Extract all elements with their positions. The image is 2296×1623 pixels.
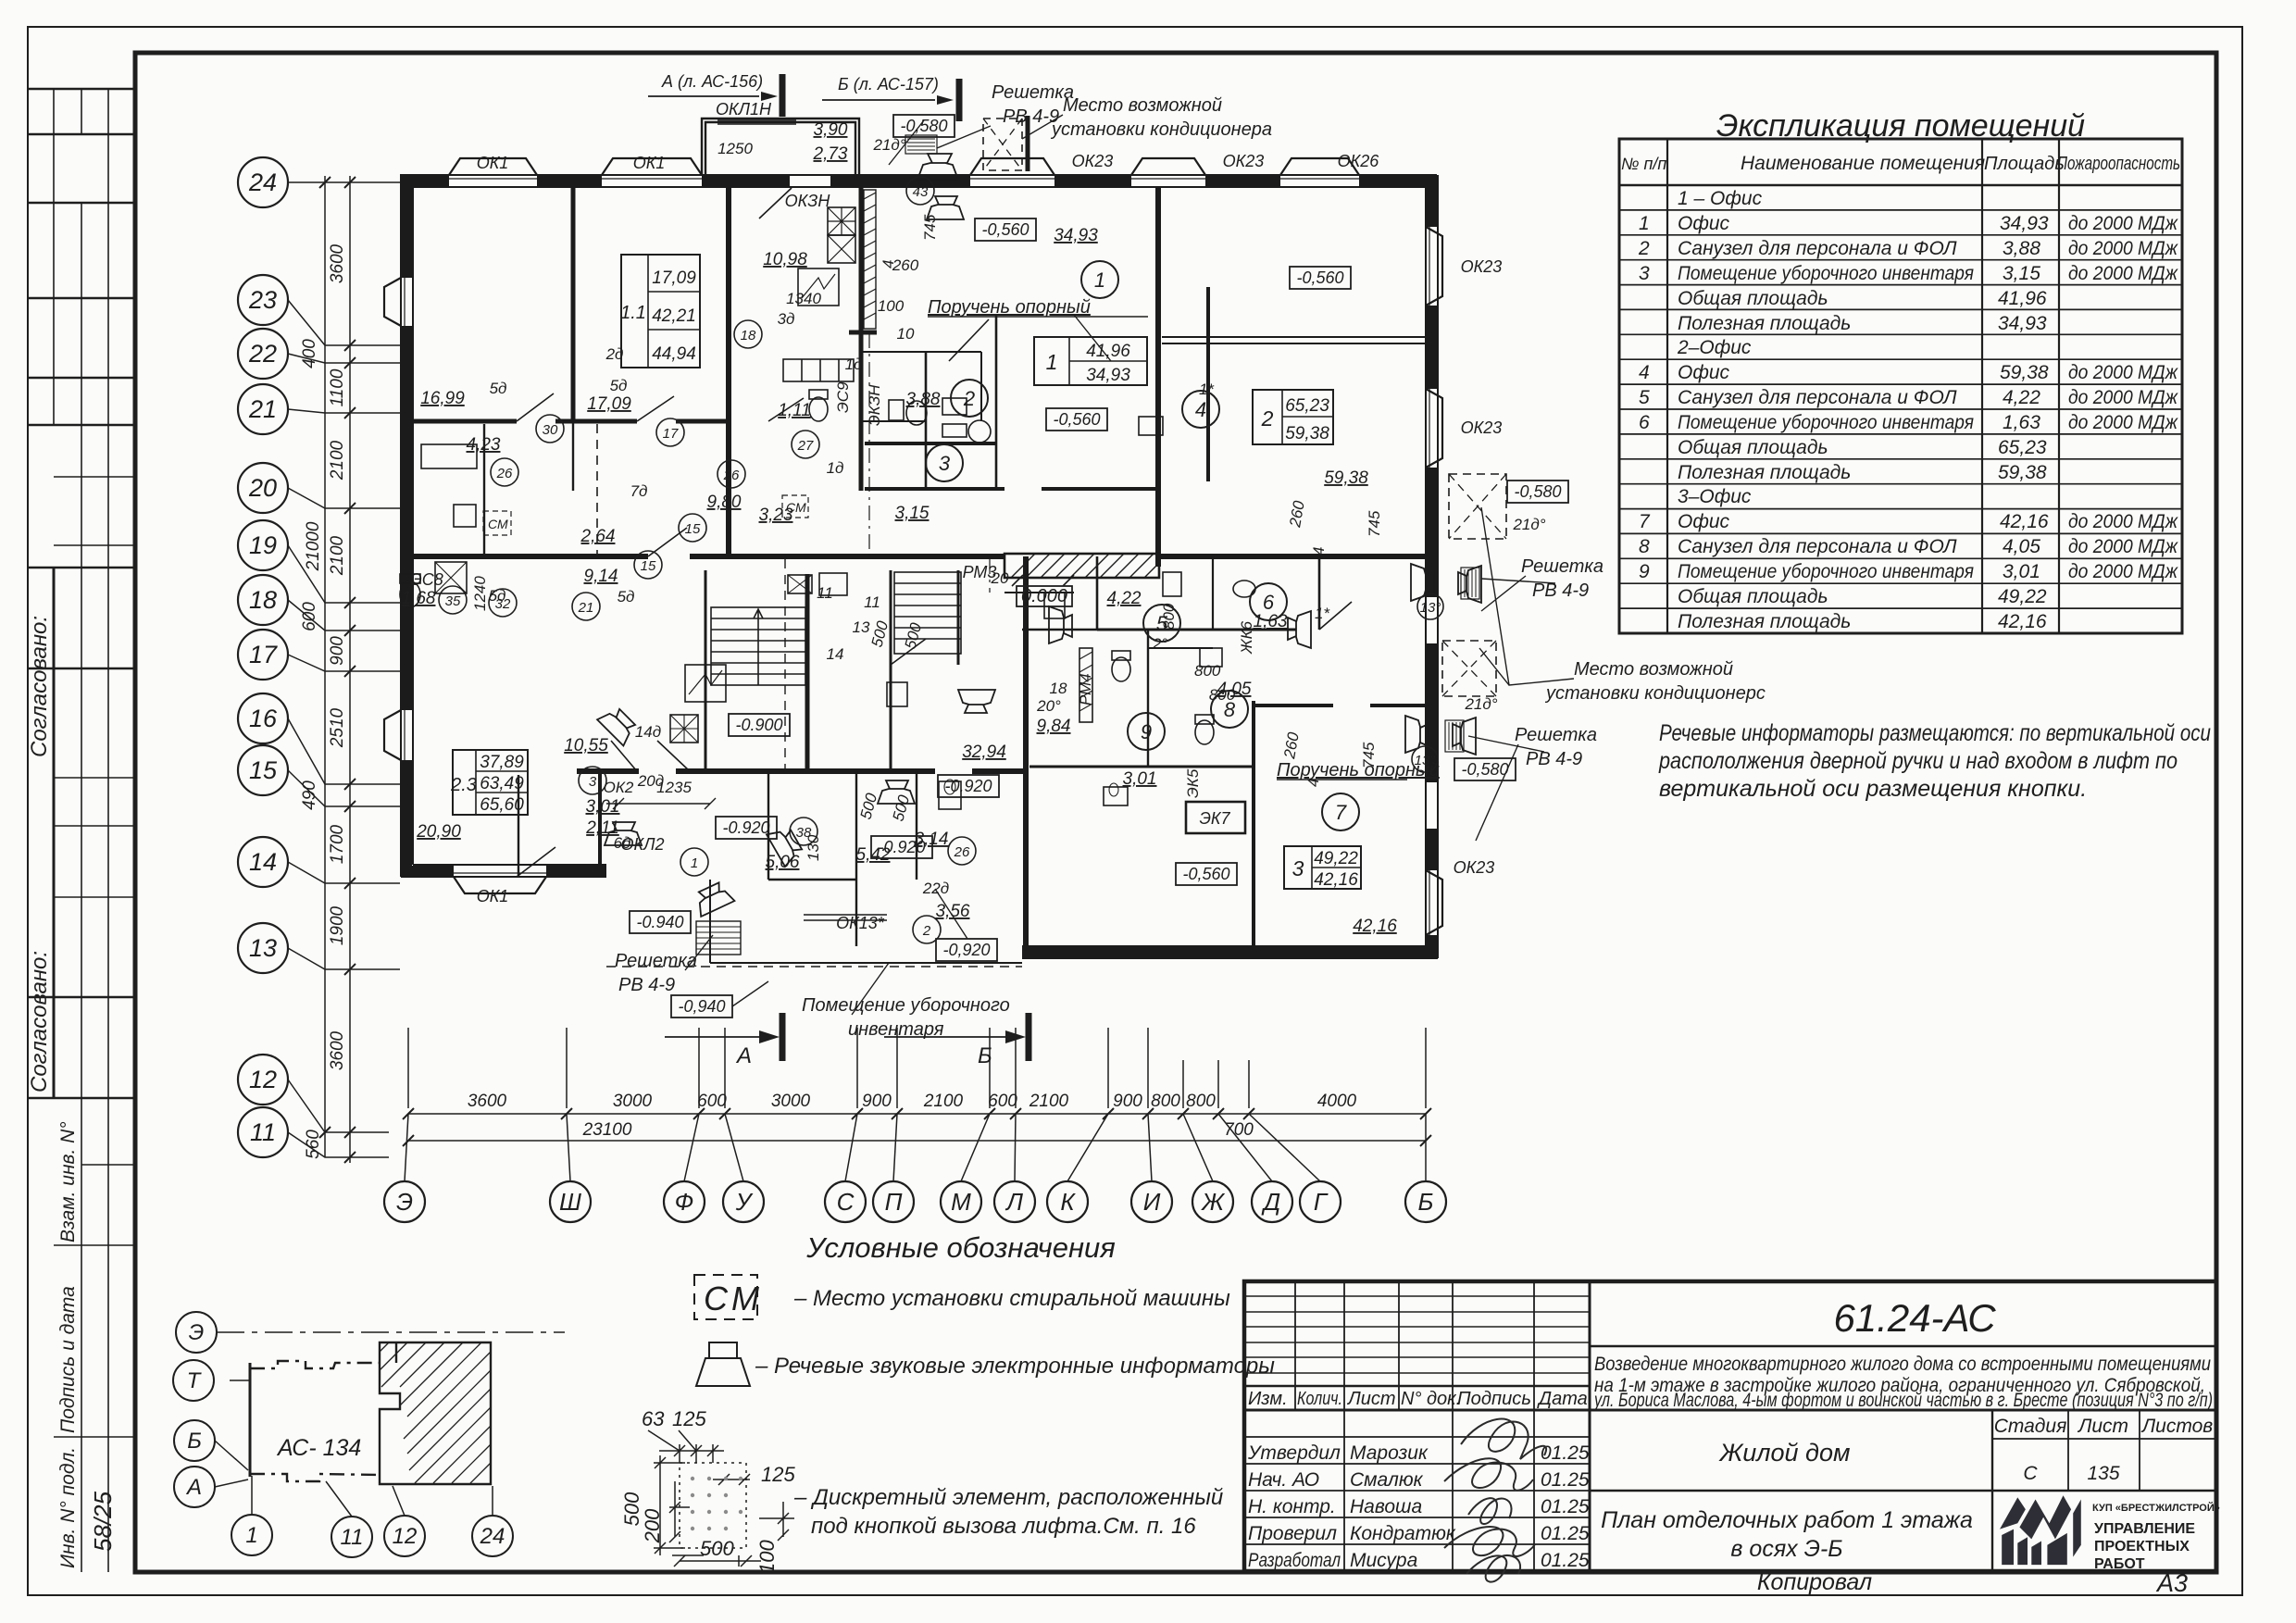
svg-text:ЭС8: ЭС8 [410, 570, 443, 589]
svg-text:11: 11 [341, 1525, 364, 1550]
svg-text:С: С [2023, 1463, 2038, 1484]
hatched mat on corridor [1004, 554, 1159, 578]
svg-text:Ж: Ж [1200, 1188, 1226, 1216]
svg-text:800: 800 [1160, 603, 1178, 630]
svg-text:ЭК5: ЭК5 [1184, 768, 1202, 798]
svg-text:вертикальной оси размещения кн: вертикальной оси размещения кнопки. [1659, 776, 2087, 802]
left dim labels rotated [300, 243, 347, 1158]
svg-text:900: 900 [1113, 1092, 1142, 1111]
bottom-left exterior wall [401, 865, 606, 877]
section mark A top [661, 72, 939, 94]
svg-text:500: 500 [857, 791, 881, 821]
svg-text:17: 17 [249, 641, 278, 668]
svg-text:-0,580: -0,580 [1514, 482, 1561, 501]
svg-text:01.25: 01.25 [1541, 1550, 1590, 1571]
svg-text:ОК23: ОК23 [1461, 418, 1503, 437]
axis circles [173, 1312, 513, 1557]
svg-text:49,22: 49,22 [1314, 849, 1358, 868]
CM washing machine symbol [694, 1275, 757, 1319]
svg-text:900: 900 [862, 1092, 892, 1111]
svg-text:Б: Б [187, 1429, 202, 1454]
rotated labels [27, 616, 117, 1568]
svg-text:2: 2 [1261, 406, 1274, 431]
svg-text:Смалюк: Смалюк [1350, 1469, 1424, 1491]
vent block crossed squares [828, 207, 855, 235]
text notes on plan [615, 82, 1766, 1040]
bottom axis circles [384, 1181, 1446, 1222]
svg-text:УПРАВЛЕНИЕ: УПРАВЛЕНИЕ [2094, 1521, 2195, 1537]
svg-text:1д: 1д [827, 459, 844, 477]
svg-text:Разработал: Разработал [1248, 1550, 1341, 1571]
porch outline bottom center [710, 880, 1022, 963]
svg-text:-0,580: -0,580 [900, 117, 947, 135]
svg-text:1д: 1д [845, 356, 863, 373]
svg-text:Копировал: Копировал [1757, 1569, 1872, 1595]
svg-text:ОКЛ2: ОКЛ2 [621, 835, 665, 854]
svg-text:125: 125 [672, 1407, 706, 1430]
svg-text:490: 490 [300, 780, 319, 810]
svg-text:Г: Г [1314, 1188, 1329, 1216]
svg-text:Общая площадь: Общая площадь [1678, 586, 1828, 607]
svg-text:800: 800 [1194, 662, 1221, 680]
svg-text:1: 1 [245, 1523, 257, 1548]
svg-text:Колич.: Колич. [1297, 1389, 1342, 1409]
svg-text:4,05: 4,05 [2003, 536, 2040, 557]
svg-text:5,42: 5,42 [856, 845, 891, 865]
stamp column verticals [54, 89, 108, 1572]
svg-text:до 2000 МДж: до 2000 МДж [2068, 213, 2178, 234]
svg-text:ПРОЕКТНЫХ: ПРОЕКТНЫХ [2094, 1539, 2190, 1554]
svg-text:установки кондиционера: установки кондиционера [1050, 119, 1272, 140]
svg-text:Лист: Лист [1346, 1389, 1396, 1409]
svg-text:42,21: 42,21 [652, 306, 696, 326]
svg-text:59,38: 59,38 [2000, 362, 2049, 383]
svg-text:-0,560: -0,560 [1296, 268, 1343, 287]
room 7 walls [1252, 701, 1255, 946]
svg-text:13: 13 [249, 934, 277, 962]
svg-text:900: 900 [328, 636, 347, 666]
svg-text:Место возможной: Место возможной [1063, 95, 1222, 116]
svg-text:Э: Э [189, 1320, 205, 1345]
section mark A bottom [735, 1043, 992, 1068]
svg-text:27: 27 [797, 438, 814, 454]
left vertical dim chain lines [325, 176, 350, 1163]
svg-text:01.25: 01.25 [1541, 1469, 1590, 1491]
svg-text:Помещение уборочного: Помещение уборочного [802, 995, 1010, 1016]
svg-text:2–Офис: 2–Офис [1677, 337, 1752, 358]
svg-text:Подпись: Подпись [1457, 1389, 1531, 1409]
svg-text:8: 8 [1639, 536, 1650, 557]
svg-text:3д: 3д [778, 310, 795, 328]
svg-text:1900: 1900 [328, 905, 347, 945]
svg-text:34,93: 34,93 [1998, 313, 2047, 334]
svg-text:4000: 4000 [1317, 1092, 1357, 1111]
svg-text:ОКЛ1Н: ОКЛ1Н [716, 100, 772, 119]
svg-text:20,90: 20,90 [416, 822, 461, 842]
svg-text:4: 4 [1310, 547, 1328, 556]
svg-text:17,09: 17,09 [587, 394, 631, 414]
wall H y455 left rooms [400, 419, 731, 424]
svg-text:-0,920: -0,920 [942, 941, 990, 959]
svg-text:600: 600 [300, 602, 319, 631]
svg-text:500: 500 [868, 618, 892, 649]
svg-text:Ш: Ш [559, 1188, 581, 1216]
svg-text:Площадь: Площадь [1984, 154, 2065, 174]
svg-text:до 2000 МДж: до 2000 МДж [2068, 238, 2178, 259]
svg-text:Т: Т [187, 1368, 203, 1393]
svg-text:2: 2 [922, 923, 931, 939]
svg-text:18: 18 [741, 328, 756, 343]
svg-text:установки кондиционерс: установки кондиционерс [1544, 683, 1766, 704]
svg-text:до 2000 МДж: до 2000 МДж [2068, 536, 2178, 557]
left tick marks [319, 177, 356, 1163]
svg-text:260: 260 [1280, 730, 1303, 761]
svg-text:4,23: 4,23 [467, 435, 501, 455]
svg-text:Место возможной: Место возможной [1574, 659, 1733, 680]
partition H y368 office 2 [1162, 337, 1426, 343]
small fixtures: toilets and sinks [400, 268, 1255, 809]
svg-text:500: 500 [890, 793, 914, 823]
bottom horizontal dim chain [408, 1114, 1426, 1141]
svg-text:ОК1: ОК1 [477, 887, 509, 905]
svg-text:59,38: 59,38 [1324, 468, 1368, 488]
dashed AC box top [983, 119, 1022, 170]
svg-text:3,01: 3,01 [586, 797, 620, 817]
svg-text:Утвердил: Утвердил [1247, 1442, 1341, 1464]
svg-text:№ п/п: № п/п [1621, 155, 1666, 173]
svg-text:9,80: 9,80 [707, 493, 742, 512]
svg-text:А3: А3 [2155, 1569, 2188, 1597]
svg-text:ЖК6: ЖК6 [1238, 620, 1255, 655]
svg-text:ОК23: ОК23 [1223, 152, 1265, 170]
svg-text:Навоша: Навоша [1350, 1496, 1422, 1517]
wall V x930 kitchen shaft [859, 187, 864, 491]
entry canopy line at 0.000 [1004, 592, 1074, 593]
svg-text:21000: 21000 [304, 521, 323, 571]
svg-text:инвентаря: инвентаря [848, 1019, 944, 1040]
svg-text:18: 18 [1050, 680, 1067, 697]
svg-text:7д: 7д [630, 482, 648, 500]
building outline [215, 1332, 565, 1517]
svg-text:34,93: 34,93 [1086, 366, 1130, 385]
svg-text:6: 6 [1263, 591, 1275, 614]
room number circles [926, 261, 1359, 830]
svg-text:до 2000 МДж: до 2000 МДж [2068, 362, 2178, 383]
svg-text:А: А [185, 1475, 202, 1500]
svg-text:1,68: 1,68 [402, 589, 436, 608]
svg-text:100: 100 [755, 1540, 779, 1574]
svg-text:1*: 1* [1199, 381, 1215, 398]
window labels [410, 100, 1502, 932]
svg-text:30: 30 [543, 422, 558, 438]
svg-text:Ф: Ф [675, 1188, 694, 1216]
svg-text:РВ 4-9: РВ 4-9 [618, 975, 675, 995]
svg-text:Пожароопасность: Пожароопасность [2057, 154, 2180, 174]
svg-text:61.24-АС: 61.24-АС [1833, 1296, 1996, 1340]
svg-text:23100: 23100 [582, 1120, 632, 1140]
svg-text:3600: 3600 [468, 1092, 507, 1111]
svg-text:9: 9 [1141, 720, 1152, 743]
svg-text:41,96: 41,96 [1086, 342, 1130, 361]
svg-text:16: 16 [249, 705, 278, 732]
hatched shaft strip [864, 190, 876, 329]
svg-text:АС- 134: АС- 134 [276, 1435, 361, 1461]
svg-text:15: 15 [641, 558, 656, 574]
svg-text:2.3: 2.3 [450, 775, 477, 795]
svg-text:3: 3 [939, 452, 951, 475]
svg-text:РАБОТ: РАБОТ [2094, 1556, 2145, 1572]
svg-text:63,49: 63,49 [480, 774, 524, 793]
svg-text:Условные обозначения: Условные обозначения [805, 1231, 1116, 1264]
svg-text:1,63: 1,63 [1254, 612, 1288, 631]
svg-text:5,06: 5,06 [766, 853, 800, 872]
svg-text:3,01: 3,01 [2003, 561, 2040, 582]
svg-text:16,99: 16,99 [420, 389, 465, 408]
svg-text:до 2000 МДж: до 2000 МДж [2068, 387, 2178, 408]
EK7 box [1186, 802, 1245, 833]
svg-text:1.1: 1.1 [620, 303, 646, 323]
svg-text:1340: 1340 [786, 290, 821, 307]
svg-text:Согласовано:: Согласовано: [27, 616, 52, 757]
svg-text:26: 26 [954, 844, 970, 860]
svg-text:2510: 2510 [328, 707, 347, 748]
svg-text:Б: Б [1418, 1188, 1434, 1216]
svg-text:-0,560: -0,560 [1053, 410, 1100, 429]
svg-text:ОК23: ОК23 [1454, 858, 1495, 877]
svg-text:41,96: 41,96 [1998, 288, 2047, 309]
svg-text:Поручень опорный: Поручень опорный [1277, 760, 1440, 780]
svg-text:600: 600 [697, 1092, 727, 1111]
svg-text:800: 800 [1209, 686, 1236, 704]
svg-text:11: 11 [864, 593, 880, 611]
svg-text:7: 7 [1639, 511, 1651, 532]
svg-text:ОК1: ОК1 [633, 154, 666, 172]
svg-text:РВ 4-9: РВ 4-9 [1003, 106, 1059, 127]
svg-text:под кнопкой вызова лифта.См. п: под кнопкой вызова лифта.См. п. 16 [811, 1514, 1196, 1539]
svg-text:Помещение уборочного инвентаря: Помещение уборочного инвентаря [1678, 263, 1974, 284]
svg-text:3000: 3000 [613, 1092, 653, 1111]
dim line OK2 1235 [606, 798, 716, 809]
stamp partial rows [54, 477, 135, 1437]
svg-text:РВ 4-9: РВ 4-9 [1532, 581, 1589, 601]
svg-text:ОК26: ОК26 [1338, 152, 1380, 170]
svg-text:1 – Офис: 1 – Офис [1678, 188, 1763, 209]
svg-text:745: 745 [921, 214, 939, 241]
top entrance bump ОКЛ1Н [702, 119, 859, 179]
svg-text:-0,560: -0,560 [981, 220, 1029, 239]
svg-text:Инв. N° подл.: Инв. N° подл. [57, 1447, 79, 1568]
svg-text:А: А [735, 1043, 752, 1068]
svg-text:ОК1: ОК1 [477, 154, 509, 172]
dashed partition line left [596, 424, 598, 554]
left axis circles [238, 157, 288, 1157]
svg-text:Общая площадь: Общая площадь [1678, 437, 1828, 458]
svg-text:Поручень опорный: Поручень опорный [928, 297, 1091, 318]
svg-text:19: 19 [249, 531, 277, 559]
top wall piers [400, 175, 1437, 187]
svg-text:22: 22 [248, 340, 277, 368]
svg-text:12: 12 [249, 1066, 277, 1093]
svg-text:42,16: 42,16 [1998, 611, 2047, 632]
top exterior wall faces [400, 175, 1437, 187]
svg-text:Д: Д [1261, 1188, 1280, 1216]
wall V x619 [571, 187, 576, 421]
svg-text:ул. Бориса Маслова, 4-ым форто: ул. Бориса Маслова, 4-ым фортом и воинск… [1592, 1390, 2213, 1411]
svg-text:58/25: 58/25 [89, 1491, 117, 1552]
svg-text:П: П [885, 1188, 903, 1216]
svg-text:2°: 2° [1152, 635, 1167, 653]
stairwell walls [705, 570, 707, 771]
svg-text:2100: 2100 [923, 1092, 964, 1111]
svg-text:7: 7 [1335, 801, 1347, 824]
svg-text:СМ: СМ [488, 517, 508, 531]
svg-text:9: 9 [1639, 561, 1650, 582]
wall V x787 [726, 187, 731, 558]
svg-text:10: 10 [897, 325, 915, 343]
svg-text:Взам. инв. N°: Взам. инв. N° [57, 1121, 79, 1242]
svg-text:3,88: 3,88 [2003, 238, 2040, 259]
discrete element diagram [648, 1430, 794, 1567]
svg-text:5д: 5д [490, 380, 507, 397]
bottom-center room partitions [768, 771, 856, 946]
svg-text:-0,940: -0,940 [678, 997, 725, 1016]
svg-text:Офис: Офис [1678, 362, 1730, 383]
svg-text:5д: 5д [610, 377, 628, 394]
leader lines [685, 115, 1574, 1015]
svg-text:-0.920: -0.920 [944, 777, 992, 795]
elevation boxes [630, 115, 1568, 1017]
svg-text:План отделочных работ 1 этажа: План отделочных работ 1 этажа [1601, 1507, 1973, 1533]
right mid rooms 5 6 8 9 [1096, 556, 1099, 630]
svg-text:01.25: 01.25 [1541, 1442, 1590, 1464]
svg-text:24: 24 [248, 169, 277, 196]
svg-text:1250: 1250 [717, 140, 753, 157]
svg-text:260: 260 [1286, 499, 1308, 530]
svg-text:34,93: 34,93 [2000, 213, 2049, 234]
wall V x655 step [598, 771, 602, 877]
svg-text:ОК2: ОК2 [604, 779, 634, 796]
svg-text:26: 26 [496, 466, 513, 481]
svg-text:11: 11 [250, 1118, 276, 1146]
svg-text:745: 745 [1366, 510, 1383, 537]
svg-text:Речевые информаторы размещаютс: Речевые информаторы размещаются: по верт… [1659, 720, 2211, 746]
svg-text:4: 4 [1639, 362, 1650, 383]
svg-text:63: 63 [642, 1407, 665, 1430]
svg-text:21: 21 [248, 395, 277, 423]
svg-text:11: 11 [817, 584, 833, 602]
speaker symbols [597, 154, 1481, 917]
svg-text:ОКЗН: ОКЗН [785, 192, 831, 210]
bottom dim labels [468, 1092, 1357, 1140]
svg-text:2: 2 [1638, 238, 1650, 259]
svg-text:Решетка: Решетка [1521, 556, 1603, 577]
door leaves misc [517, 398, 1352, 877]
svg-text:Изм.: Изм. [1248, 1389, 1288, 1409]
svg-text:до 2000 МДж: до 2000 МДж [2068, 412, 2178, 433]
svg-text:КУП «БРЕСТЖИЛСТРОЙ»: КУП «БРЕСТЖИЛСТРОЙ» [2092, 1502, 2220, 1514]
svg-text:Проверил: Проверил [1248, 1523, 1337, 1544]
right exterior wall [1426, 175, 1438, 958]
grille hatch right 1 [1461, 568, 1479, 599]
svg-text:С: С [837, 1188, 855, 1216]
svg-text:3,23: 3,23 [759, 506, 793, 525]
svg-text:59,38: 59,38 [1998, 462, 2047, 483]
svg-text:Б (л. АС-157): Б (л. АС-157) [838, 75, 939, 94]
svg-text:ЭС9: ЭС9 [834, 381, 852, 413]
svg-text:С: С [704, 1280, 729, 1317]
svg-text:Л: Л [1004, 1188, 1023, 1216]
svg-text:Листов: Листов [2140, 1416, 2214, 1437]
svg-text:Санузел для персонала и ФОЛ: Санузел для персонала и ФОЛ [1678, 536, 1957, 557]
svg-text:3,01: 3,01 [1123, 769, 1157, 789]
svg-text:5д: 5д [489, 587, 506, 605]
svg-text:Н. контр.: Н. контр. [1248, 1496, 1336, 1517]
svg-text:3000: 3000 [771, 1092, 811, 1111]
svg-text:22д: 22д [922, 880, 949, 897]
svg-text:200: 200 [641, 1508, 664, 1543]
bottom ticks [403, 1108, 1431, 1146]
PM4 duct [1079, 648, 1092, 722]
signatures [1444, 1419, 1546, 1582]
svg-text:20д: 20д [637, 772, 664, 790]
svg-text:ЭК7: ЭК7 [1199, 809, 1230, 828]
svg-text:Полезная площадь: Полезная площадь [1678, 611, 1851, 632]
svg-text:700: 700 [1224, 1120, 1254, 1140]
svg-text:распололжения дверной ручки и: распололжения дверной ручки и над входом… [1658, 748, 2177, 774]
svg-text:10,98: 10,98 [763, 250, 807, 269]
svg-text:560: 560 [304, 1130, 323, 1159]
wall V x1251 [1155, 187, 1161, 567]
svg-text:59,38: 59,38 [1285, 424, 1329, 443]
svg-text:Офис: Офис [1678, 213, 1730, 234]
svg-text:18: 18 [249, 586, 277, 614]
svg-text:А (л. АС-156): А (л. АС-156) [661, 72, 763, 91]
svg-text:4,22: 4,22 [1107, 589, 1142, 608]
svg-text:21д°: 21д° [872, 136, 905, 154]
svg-text:600: 600 [988, 1092, 1017, 1111]
svg-text:-0.940: -0.940 [636, 913, 683, 931]
svg-text:ОК23: ОК23 [1072, 152, 1114, 170]
svg-text:1700: 1700 [328, 824, 347, 864]
svg-text:3,88: 3,88 [906, 390, 941, 409]
svg-text:3: 3 [1639, 263, 1650, 284]
svg-text:20°: 20° [1036, 697, 1061, 715]
svg-text:И: И [1143, 1188, 1161, 1216]
svg-text:3,56: 3,56 [936, 902, 970, 921]
svg-text:– Дискретный элемент, располож: – Дискретный элемент, расположенный [793, 1485, 1223, 1510]
bottom-right exterior wall [1022, 946, 1438, 958]
svg-text:1,11: 1,11 [778, 401, 811, 420]
svg-text:– Место установки стиральной м: – Место установки стиральной машины [793, 1286, 1230, 1311]
svg-text:Б: Б [978, 1043, 992, 1068]
svg-text:0.000: 0.000 [1021, 586, 1067, 606]
svg-text:400: 400 [300, 339, 319, 368]
svg-text:Нач. АО: Нач. АО [1248, 1469, 1319, 1491]
svg-text:до 2000 МДж: до 2000 МДж [2068, 263, 2178, 284]
svg-text:Помещение уборочного инвентаря: Помещение уборочного инвентаря [1678, 412, 1974, 433]
svg-text:3,14: 3,14 [915, 830, 949, 849]
bottom leader lines circle->tick [405, 1114, 1426, 1181]
svg-text:125: 125 [761, 1463, 795, 1486]
bath cluster walls [925, 352, 928, 491]
svg-text:Решетка: Решетка [1515, 725, 1597, 745]
svg-text:135: 135 [2087, 1463, 2119, 1484]
svg-text:1,63: 1,63 [2003, 412, 2040, 433]
stair B treads [894, 572, 961, 654]
svg-text:Решетка: Решетка [992, 82, 1074, 103]
svg-text:13°: 13° [1420, 600, 1441, 616]
svg-text:ОК13*: ОК13* [836, 914, 885, 932]
